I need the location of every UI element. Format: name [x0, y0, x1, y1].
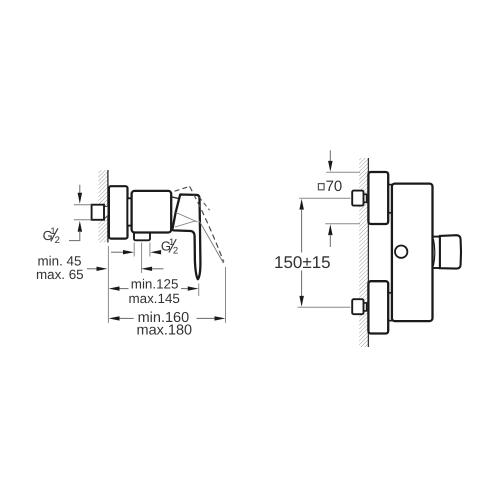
svg-text:max. 65: max. 65: [36, 267, 84, 282]
svg-text:max.145: max.145: [129, 291, 180, 306]
svg-text:70: 70: [326, 178, 343, 195]
svg-text:150±15: 150±15: [274, 253, 331, 272]
svg-text:2: 2: [55, 235, 60, 246]
svg-text:max.180: max.180: [137, 322, 193, 338]
svg-text:2: 2: [173, 246, 178, 257]
svg-text:min.125: min.125: [131, 277, 179, 292]
